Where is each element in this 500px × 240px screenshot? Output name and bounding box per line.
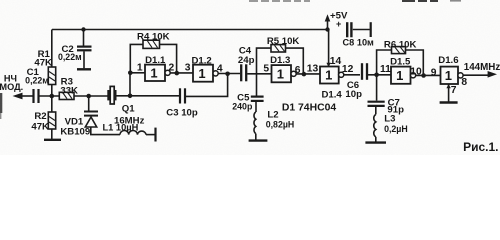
resistor R1 xyxy=(48,67,55,85)
capacitor C3 xyxy=(180,88,185,103)
varicap VD1 plates xyxy=(84,112,98,116)
wire C7 to L3 xyxy=(375,107,377,114)
wire D1.1 input xyxy=(130,72,145,74)
ground L2 xyxy=(249,139,268,141)
node +5V junction xyxy=(325,27,329,31)
resistor R3 xyxy=(59,92,74,99)
НЧ МОД input arrow xyxy=(21,95,33,97)
node VD1 tap xyxy=(86,94,91,99)
wire riser to D1.1 input xyxy=(129,73,131,96)
inverter D1.4 xyxy=(320,67,339,84)
capacitor C4 xyxy=(241,64,246,81)
wire R3 to node xyxy=(74,95,108,97)
wire R1 to node xyxy=(51,85,53,97)
wire C7 drop xyxy=(376,75,378,101)
wire 144MHz output arrow xyxy=(463,74,488,76)
wire C4 to D1.3 xyxy=(247,73,271,75)
varicap VD1 triangle xyxy=(85,117,96,127)
capacitor C6 xyxy=(362,63,367,80)
wire VD1 drop xyxy=(88,96,90,111)
resistor R5 bracket xyxy=(257,48,272,74)
node C4 junction xyxy=(225,72,230,77)
scan smudge left edge xyxy=(0,93,2,113)
node R1/R2 xyxy=(50,94,55,99)
resistor R2 xyxy=(48,112,55,129)
node R5 out junction xyxy=(302,72,307,77)
inverter D1.2 xyxy=(193,65,213,82)
wire pin14 drop xyxy=(328,30,330,67)
crystal Q1 plates xyxy=(108,90,115,100)
crystal Q1 body xyxy=(110,86,114,104)
wire crystal to node xyxy=(117,95,180,97)
wire L3 to ground xyxy=(375,137,377,142)
L1 end terminal bar xyxy=(154,128,156,142)
wire pin7 to ground xyxy=(448,84,450,102)
inductor L1 xyxy=(120,130,146,134)
wire D1.2 out xyxy=(218,73,240,75)
resistor R4 xyxy=(143,40,160,48)
wire R1 drop from rail xyxy=(51,30,53,68)
inverter D1.1 xyxy=(145,65,165,81)
wire C5 to L2 xyxy=(255,102,257,112)
wire top +5V rail xyxy=(52,29,328,31)
wire R2 to ground xyxy=(51,129,53,139)
+5V arrow xyxy=(327,21,329,30)
wire D1.5 out xyxy=(416,74,441,76)
ground C2 xyxy=(77,68,91,70)
capacitor C2 xyxy=(77,47,92,51)
wire L2 to ground xyxy=(255,134,257,140)
inductor L3 xyxy=(374,114,376,136)
inductor L2 xyxy=(254,112,256,134)
resistor R6 bracket xyxy=(377,50,392,75)
C8 end terminal bar xyxy=(370,22,372,37)
node C7 junction xyxy=(374,73,379,78)
inverter D1.5 xyxy=(391,67,411,84)
wire R2 drop xyxy=(51,96,53,112)
wire C2 drop xyxy=(83,30,85,46)
resistor R6 xyxy=(392,47,406,54)
node R4 out junction xyxy=(175,71,180,76)
wire rail right to C8 xyxy=(353,29,370,31)
wire C3 to riser xyxy=(186,74,228,96)
node C2 junction xyxy=(81,27,85,31)
wire D1.4 out xyxy=(344,74,360,76)
wire D1.3 out xyxy=(296,73,320,75)
resistor R5 xyxy=(271,45,286,52)
wire C1 to node xyxy=(40,95,60,97)
node D1.1 input junction xyxy=(128,71,133,76)
ground pin7 xyxy=(440,101,458,103)
scan smudges top right xyxy=(249,0,310,2)
node R6 out junction xyxy=(421,73,426,78)
resistor R4 bracket xyxy=(130,44,143,72)
ground R2 xyxy=(44,139,61,141)
inverter D1.3 xyxy=(272,65,292,82)
node D1.1 input tap xyxy=(128,94,133,99)
wire C2 to ground xyxy=(83,51,85,68)
capacitor C5 xyxy=(251,97,264,101)
wire D1.1 out xyxy=(170,72,193,74)
wire C5 drop xyxy=(256,74,258,96)
capacitor C7 xyxy=(368,102,385,106)
capacitor C8 xyxy=(347,22,351,37)
wire L1 to terminal xyxy=(146,134,155,136)
inverter D1.6 xyxy=(441,67,459,84)
pin 14 arrow into D1.4 xyxy=(326,63,330,67)
pin 7 arrow into D1.6 xyxy=(446,84,450,88)
wire VD1 to L1 xyxy=(91,128,120,135)
capacitor C1 xyxy=(34,89,39,103)
ground L3 xyxy=(365,141,386,143)
wire C6 to D1.5 xyxy=(368,74,391,76)
